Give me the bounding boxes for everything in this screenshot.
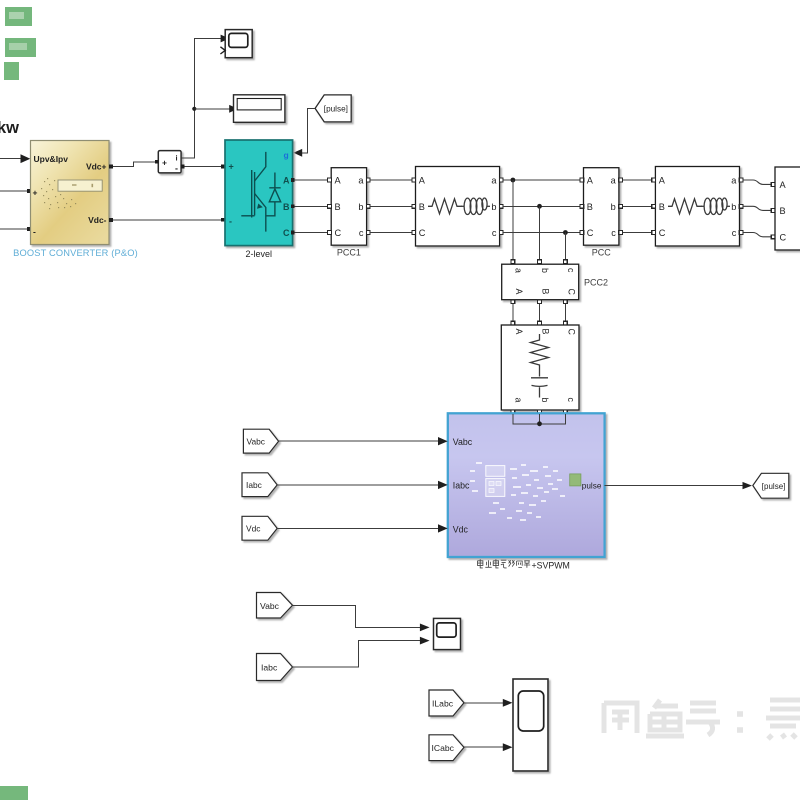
watermark 闲鱼号：煮 (stroke approximation) <box>604 700 800 739</box>
svg-text:c: c <box>566 398 576 403</box>
block grid source (cut at right edge) <box>775 167 800 250</box>
svg-text:B: B <box>335 202 341 212</box>
svg-text:g: g <box>284 150 289 160</box>
svg-text:[pulse]: [pulse] <box>324 104 348 113</box>
svg-text:a: a <box>514 268 524 273</box>
hidden corner block 2 <box>5 38 36 57</box>
block controller SVPWM (lavender) <box>448 413 605 557</box>
svg-text:B: B <box>541 289 551 295</box>
block RLC branch 1 <box>416 167 500 247</box>
tag From Iabc <box>242 473 277 497</box>
svg-text:C: C <box>780 232 787 242</box>
junction dot c <box>563 230 568 235</box>
scope1 unconnected port chevron <box>220 47 225 54</box>
inverter output ports <box>291 178 295 182</box>
wires PCC to RLC2 row continues: PCC block <box>584 168 619 246</box>
svg-text:-: - <box>33 227 36 237</box>
svg-text:Upv&Ipv: Upv&Ipv <box>34 154 69 164</box>
svg-text:PCC: PCC <box>592 248 612 258</box>
wire dc+ to inverter <box>184 165 221 167</box>
svg-text:B: B <box>283 202 290 212</box>
junction dot b <box>537 204 542 209</box>
wire input + <box>0 190 27 192</box>
wire pulse tag to g <box>302 108 316 152</box>
svg-text:Iabc: Iabc <box>246 480 262 490</box>
tag From Vdc <box>242 516 277 540</box>
svg-text:b: b <box>540 398 550 403</box>
svg-text:PCC1: PCC1 <box>337 248 361 258</box>
wire Vdc+ to current meas <box>113 162 155 167</box>
svg-text:C: C <box>567 289 577 296</box>
RLC1 icon resistor+inductor <box>428 198 490 215</box>
speckles <box>41 178 76 209</box>
svg-text:a: a <box>611 176 617 186</box>
svg-text:A: A <box>283 176 290 186</box>
svg-text:ILabc: ILabc <box>432 698 454 708</box>
block display <box>234 95 285 123</box>
svg-text:+: + <box>162 158 167 168</box>
inner display of boost block <box>58 180 102 191</box>
svg-text:Vdc-: Vdc- <box>88 215 107 225</box>
svg-text:Iabc: Iabc <box>261 663 278 673</box>
svg-text:C: C <box>419 228 426 238</box>
block scope1 <box>225 30 252 58</box>
controller output wire to goto <box>605 485 748 487</box>
wires to scope2 <box>293 605 426 627</box>
svg-text:a: a <box>514 398 524 403</box>
wires PCC1 to RLC1 <box>370 180 412 233</box>
controller pulse output icon <box>570 474 581 486</box>
svg-text:Vdc: Vdc <box>453 525 469 535</box>
svg-text:-: - <box>175 164 178 174</box>
block RLC branch 2 <box>655 167 739 247</box>
block PCC1 <box>331 168 366 246</box>
svg-text:+SVPWM: +SVPWM <box>532 560 570 570</box>
svg-text:C: C <box>567 329 577 336</box>
svg-text:Vdc: Vdc <box>246 524 260 534</box>
svg-text:Vdc+: Vdc+ <box>86 162 107 172</box>
svg-text:Vabc: Vabc <box>247 436 265 446</box>
wires PCC to RLC2 <box>623 180 652 233</box>
svg-text:B: B <box>587 202 593 212</box>
svg-text:i: i <box>176 154 178 163</box>
block RLC load (vertical) <box>501 325 579 410</box>
svg-text:A: A <box>659 176 666 186</box>
svg-text:B: B <box>780 206 786 216</box>
svg-text:Vabc: Vabc <box>453 437 473 447</box>
svg-text:A: A <box>780 180 787 190</box>
block scope3 tall <box>513 679 548 771</box>
block 2-level inverter <box>225 140 293 246</box>
tap wires down to PCC2 <box>513 180 566 260</box>
tag From [pulse] top <box>315 95 351 122</box>
load bottom ports <box>511 410 515 414</box>
jog wires RLC2 to source <box>743 180 771 237</box>
svg-text:PCC2: PCC2 <box>584 278 608 288</box>
svg-text:a: a <box>491 176 497 186</box>
wire i output up <box>182 39 221 159</box>
svg-text:C: C <box>283 228 290 238</box>
svg-text:-: - <box>229 217 232 227</box>
wires RLC1 to PCC with taps <box>503 180 580 233</box>
block BOOST CONVERTER (P&O) <box>31 141 110 245</box>
svg-text:b: b <box>491 202 496 212</box>
svg-text:A: A <box>587 176 594 186</box>
junction dot a <box>511 178 516 183</box>
junction dot <box>192 107 196 111</box>
hidden corner block 3 <box>4 62 19 80</box>
wire dc- to inverter <box>113 219 221 221</box>
svg-text:pulse: pulse <box>582 482 602 491</box>
label controller CJK 电压电流双闭环+SVPWM <box>478 559 531 568</box>
svg-text:b: b <box>611 202 616 212</box>
hidden corner strip bottom-left <box>0 786 28 800</box>
block PCC2 (rotated measurement) <box>502 264 579 300</box>
svg-text:+: + <box>33 188 38 198</box>
port squares boost outputs <box>109 165 113 169</box>
svg-text:a: a <box>731 176 737 186</box>
wires PCC2 down to load <box>513 304 566 322</box>
svg-text:ICabc: ICabc <box>432 743 455 753</box>
svg-text:B: B <box>541 329 551 335</box>
svg-text:B: B <box>659 202 665 212</box>
load icon R + C vertical <box>531 334 549 398</box>
svg-text:b: b <box>358 202 363 212</box>
svg-text:Vabc: Vabc <box>260 601 280 611</box>
wire to display <box>194 108 229 110</box>
svg-text:C: C <box>659 228 666 238</box>
wires inverter to PCC1 <box>295 180 328 233</box>
tag From Vabc lower <box>257 593 293 619</box>
block scope2 <box>434 618 461 649</box>
svg-text:A: A <box>514 329 524 335</box>
hidden corner block 1 <box>5 7 32 26</box>
wire input Upv&Ipv <box>0 158 21 160</box>
svg-text:BOOST CONVERTER (P&O): BOOST CONVERTER (P&O) <box>13 248 138 258</box>
inverter igbt/diode icon <box>241 152 280 232</box>
tag Goto [pulse] right <box>753 473 789 498</box>
tag From Vabc <box>243 429 278 453</box>
block current measurement U_i <box>158 151 181 173</box>
svg-text:a: a <box>358 176 364 186</box>
svg-text:+: + <box>229 162 234 172</box>
svg-text:Iabc: Iabc <box>453 481 470 491</box>
svg-text:A: A <box>514 289 524 295</box>
svg-text:b: b <box>731 202 736 212</box>
controller inner ghost blocks <box>486 466 505 497</box>
svg-text:c: c <box>359 228 364 238</box>
svg-text:B: B <box>419 202 425 212</box>
svg-text:c: c <box>492 228 497 238</box>
svg-text:2-level: 2-level <box>246 249 273 259</box>
svg-text:C: C <box>587 228 594 238</box>
svg-text:c: c <box>611 228 616 238</box>
svg-text:kw: kw <box>0 119 19 137</box>
tag From ILabc <box>429 690 464 716</box>
svg-text:A: A <box>335 176 342 186</box>
svg-text:c: c <box>566 268 576 273</box>
tag From ICabc <box>429 735 464 761</box>
svg-text:[pulse]: [pulse] <box>762 482 786 491</box>
star-point bus over controller <box>513 414 566 424</box>
wire input - <box>0 228 27 230</box>
svg-text:c: c <box>732 228 737 238</box>
RLC2 icon <box>668 198 730 215</box>
tag From Iabc lower <box>257 654 293 681</box>
svg-text:A: A <box>419 176 426 186</box>
svg-text:b: b <box>540 268 550 273</box>
svg-text:C: C <box>335 228 342 238</box>
